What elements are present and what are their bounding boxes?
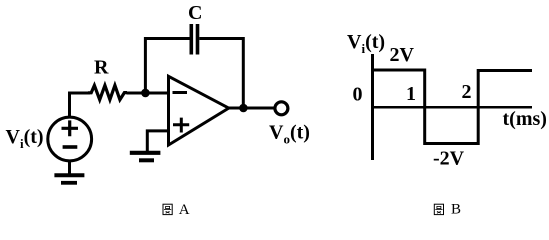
axis: Vi(t) vertical axis (figure B) (371, 54, 374, 160)
svg-text:2V: 2V (390, 44, 415, 66)
svg-text:C: C (188, 2, 202, 24)
source plus symbol (62, 120, 79, 136)
svg-text:t(ms): t(ms) (503, 108, 547, 130)
axis: t(ms) horizontal axis (371, 106, 532, 109)
wire: feedback left vertical and top to capacitor (145, 39, 189, 94)
node: inverting input junction dot (141, 89, 150, 98)
wire: op-amp output to terminal (229, 107, 275, 110)
svg-text:Vi(t): Vi(t) (347, 31, 385, 56)
svg-text:0: 0 (353, 84, 363, 106)
caption figure B glyph (434, 204, 443, 214)
wire: source bottom to ground (68, 161, 71, 175)
source minus symbol (63, 145, 78, 149)
caption figure A glyph (163, 204, 172, 214)
svg-text:Vi(t): Vi(t) (6, 126, 44, 151)
capacitor C plates (191, 24, 197, 55)
svg-text:-2V: -2V (433, 148, 465, 170)
svg-text:Vo(t): Vo(t) (269, 122, 310, 147)
op-amp minus input symbol (173, 91, 188, 94)
wire: non-inverting input to ground (147, 131, 168, 151)
op-amp U1 triangle (169, 76, 229, 145)
wire: capacitor right to output vertical (199, 39, 243, 109)
resistor R (88, 85, 127, 99)
wire: source top up and right to resistor (70, 93, 91, 117)
svg-text:R: R (94, 57, 109, 79)
output terminal circle (275, 102, 288, 115)
svg-text:A: A (179, 202, 190, 218)
wire: resistor to op-amp inverting input (127, 92, 169, 95)
ground: source (54, 175, 84, 183)
svg-text:2: 2 (462, 81, 472, 103)
op-amp plus input symbol (173, 118, 189, 133)
svg-text:B: B (451, 202, 461, 218)
ground: op-amp non-inverting input (130, 153, 161, 161)
node: output junction dot (239, 104, 248, 113)
svg-text:1: 1 (406, 83, 416, 105)
waveform: square wave Vi(t) (371, 70, 532, 144)
voltage source Vi(t) (48, 117, 92, 161)
